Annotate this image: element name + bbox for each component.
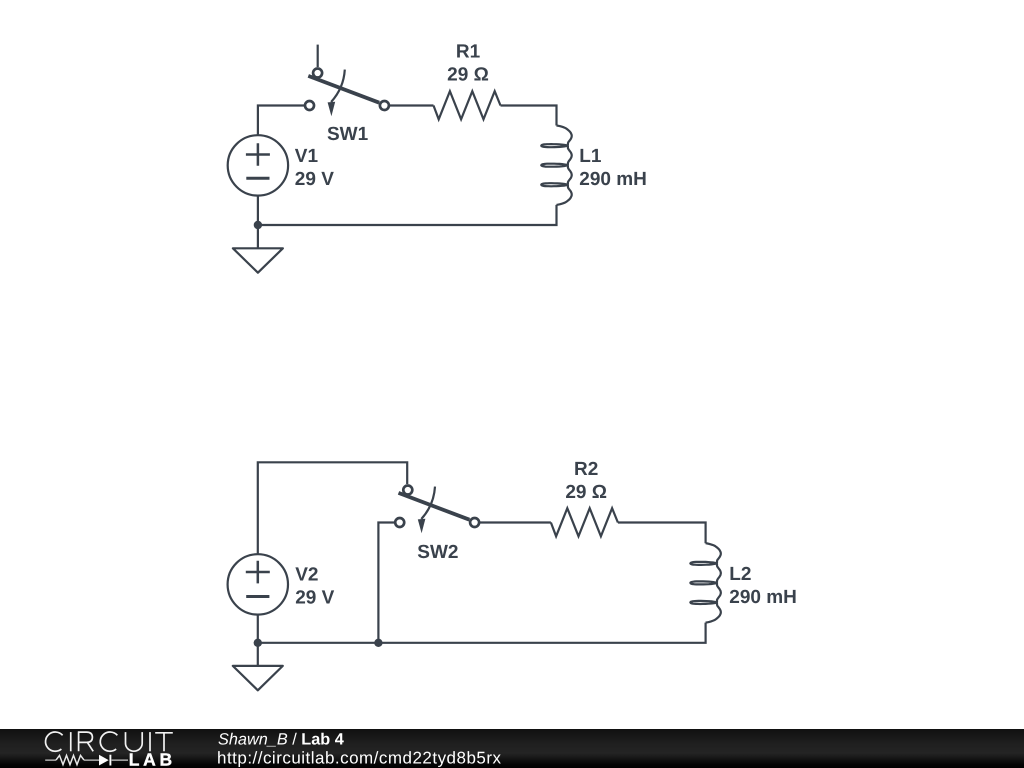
label V1 value bbox=[295, 146, 334, 190]
CircuitLab logo resistor zigzag bbox=[56, 755, 84, 764]
footer url text bbox=[217, 748, 502, 767]
label SW1 bbox=[327, 124, 369, 145]
switch SW2 bbox=[395, 486, 479, 534]
svg-text:290 mH: 290 mH bbox=[729, 587, 797, 608]
label V2 value bbox=[295, 564, 334, 608]
svg-text:Shawn_B / Lab 4: Shawn_B / Lab 4 bbox=[218, 730, 344, 748]
footer bar bbox=[0, 729, 1024, 768]
label SW2 bbox=[417, 542, 458, 563]
ground circuit1 bbox=[233, 225, 283, 273]
CircuitLab logo resistor wire glyph bbox=[45, 759, 128, 761]
svg-text:29 Ω: 29 Ω bbox=[447, 64, 489, 85]
voltage source V1 bbox=[228, 135, 288, 195]
wire SW2 left terminal down to bottom rail bbox=[378, 523, 394, 643]
svg-text:29 V: 29 V bbox=[295, 587, 334, 608]
wire V1 top to SW1 left bbox=[258, 106, 304, 136]
CircuitLab logo wordmark CIRCUIT (drawn thin letters) bbox=[46, 732, 173, 751]
svg-text:L1: L1 bbox=[579, 146, 602, 167]
svg-text:LAB: LAB bbox=[129, 749, 173, 768]
svg-text:R1: R1 bbox=[456, 41, 481, 62]
ground circuit2 bbox=[233, 643, 283, 691]
inductor L2 bbox=[690, 543, 720, 622]
label R2 value bbox=[565, 459, 607, 503]
svg-text:V2: V2 bbox=[295, 564, 318, 585]
inductor L1 bbox=[541, 126, 571, 205]
svg-text:SW1: SW1 bbox=[327, 124, 369, 145]
voltage source V2 bbox=[228, 554, 288, 614]
svg-text:R2: R2 bbox=[574, 459, 598, 480]
CircuitLab logo LAB text bbox=[129, 749, 173, 768]
wire SW2 right to R2 bbox=[480, 521, 551, 523]
wire SW1 right to R1 bbox=[390, 104, 434, 106]
svg-text:http://circuitlab.com/cmd22tyd: http://circuitlab.com/cmd22tyd8b5rx bbox=[217, 748, 502, 767]
svg-text:29 V: 29 V bbox=[295, 169, 334, 190]
node junction circuit1 bbox=[254, 221, 262, 229]
wire L1 bottom rail to V1 bbox=[258, 196, 557, 225]
svg-text:290 mH: 290 mH bbox=[579, 169, 647, 190]
svg-text:L2: L2 bbox=[729, 564, 751, 585]
svg-text:V1: V1 bbox=[295, 146, 319, 167]
wire R1 to L1 bbox=[501, 106, 557, 126]
resistor R2 bbox=[551, 508, 618, 536]
switch SW1 bbox=[305, 45, 389, 117]
resistor R1 bbox=[434, 91, 501, 119]
label R1 value bbox=[447, 41, 489, 85]
wire L2 bottom rail to V2 bbox=[258, 615, 706, 643]
wire V2 top to SW2 top terminal bbox=[258, 462, 407, 554]
svg-text:SW2: SW2 bbox=[417, 542, 458, 563]
svg-text:29 Ω: 29 Ω bbox=[565, 482, 607, 503]
footer title text bbox=[218, 730, 344, 748]
wire R2 to L2 bbox=[618, 523, 706, 544]
node junction switch branch bbox=[374, 639, 382, 647]
node junction under V2 bbox=[254, 639, 262, 647]
label L2 value bbox=[729, 564, 797, 608]
label L1 value bbox=[579, 146, 647, 190]
CircuitLab logo diode bbox=[99, 755, 110, 766]
